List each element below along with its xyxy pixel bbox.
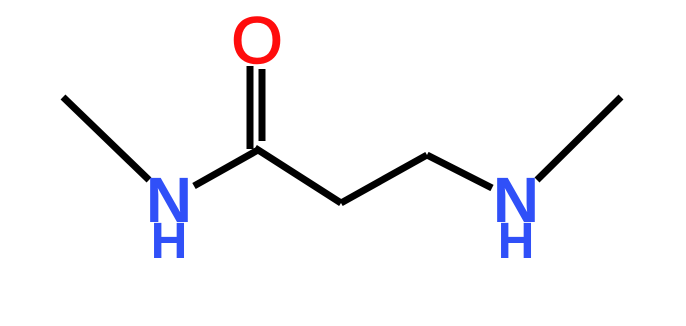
svg-text:O: O — [231, 3, 282, 77]
svg-text:H: H — [498, 212, 535, 269]
svg-text:H: H — [151, 212, 188, 269]
